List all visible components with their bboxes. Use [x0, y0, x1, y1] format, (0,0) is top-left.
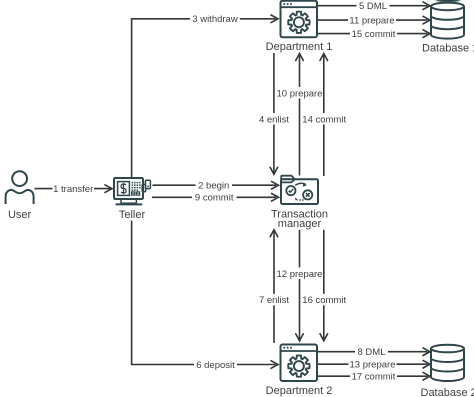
department 2 icon [281, 345, 318, 382]
wire: 5 DML [318, 5, 428, 7]
label 3 withdraw [190, 13, 240, 25]
label 11 prepare [348, 14, 396, 25]
svg-text:Database 2: Database 2 [421, 387, 474, 397]
svg-text:8 DML: 8 DML [358, 347, 386, 358]
teller icon [114, 178, 150, 204]
label 10 prepare [277, 87, 323, 99]
wire: 14 commit (transaction manager up to department 1) [323, 55, 325, 176]
wire: 11 prepare [318, 19, 428, 21]
wire: 16 commit (transaction manager down to department 2) [323, 230, 325, 339]
label 13 prepare [349, 358, 397, 370]
wire: 8 DML [318, 351, 428, 353]
svg-text:10 prepare: 10 prepare [277, 88, 323, 99]
svg-text:5 DML: 5 DML [359, 1, 387, 12]
svg-text:9 commit: 9 commit [195, 193, 234, 204]
svg-text:Department 1: Department 1 [266, 41, 333, 53]
svg-text:6 deposit: 6 deposit [196, 360, 235, 371]
svg-text:3 withdraw: 3 withdraw [192, 14, 238, 25]
svg-text:16 commit: 16 commit [302, 295, 346, 306]
label 1 transfer [53, 183, 95, 195]
wire: teller to transaction manager, 2 begin [153, 184, 277, 186]
cropped artifact above database 1 [435, 0, 462, 3]
svg-text:Database 1: Database 1 [422, 43, 474, 55]
wire: 12 prepare (transaction manager down to department 2) [299, 230, 301, 339]
database 2 icon [431, 345, 464, 381]
svg-text:manager: manager [278, 218, 322, 230]
wire: teller down elbow to department 2 [132, 221, 276, 365]
user U [6, 171, 34, 204]
label 17 commit [350, 370, 397, 382]
wire: 13 prepare [318, 363, 428, 365]
wire: 4 enlist (department 1 down to transaction manager) [273, 53, 275, 173]
svg-text:15 commit: 15 commit [352, 29, 396, 40]
svg-text:11 prepare: 11 prepare [349, 16, 394, 27]
wire: 7 enlist (department 2 up to transaction manager) [273, 232, 275, 344]
svg-text:14 commit: 14 commit [302, 114, 346, 125]
label 4 enlist [256, 113, 293, 125]
label 16 commit [302, 294, 348, 306]
svg-text:4 enlist: 4 enlist [259, 114, 289, 125]
svg-text:User: User [8, 209, 32, 221]
department 1 icon [281, 1, 318, 38]
svg-text:Teller: Teller [119, 209, 146, 221]
svg-text:Department 2: Department 2 [266, 385, 333, 397]
label 12 prepare [277, 267, 323, 279]
wire: teller up elbow to department 1 [132, 19, 276, 178]
label 6 deposit [194, 359, 237, 371]
label 8 DML [355, 346, 388, 357]
database 1 icon [431, 3, 464, 39]
svg-text:7 enlist: 7 enlist [259, 295, 289, 306]
wire: 17 commit [318, 375, 428, 377]
wire: teller to transaction manager, 9 commit [152, 196, 276, 198]
label 5 DML [357, 0, 390, 11]
wire: 10 prepare (transaction manager up to department 1) [299, 55, 301, 176]
label 15 commit [350, 28, 397, 40]
label 9 commit [192, 192, 237, 204]
svg-text:13 prepare: 13 prepare [350, 360, 396, 371]
label 7 enlist [256, 294, 293, 306]
svg-text:1 transfer: 1 transfer [53, 184, 93, 195]
svg-text:2 begin: 2 begin [198, 181, 229, 192]
label 2 begin [196, 180, 233, 192]
wire: user to teller [35, 188, 111, 190]
wire: 15 commit [318, 33, 428, 35]
svg-text:12 prepare: 12 prepare [277, 269, 323, 280]
transaction manager icon [281, 176, 318, 204]
svg-text:17 commit: 17 commit [352, 372, 396, 383]
label 14 commit [302, 113, 348, 125]
